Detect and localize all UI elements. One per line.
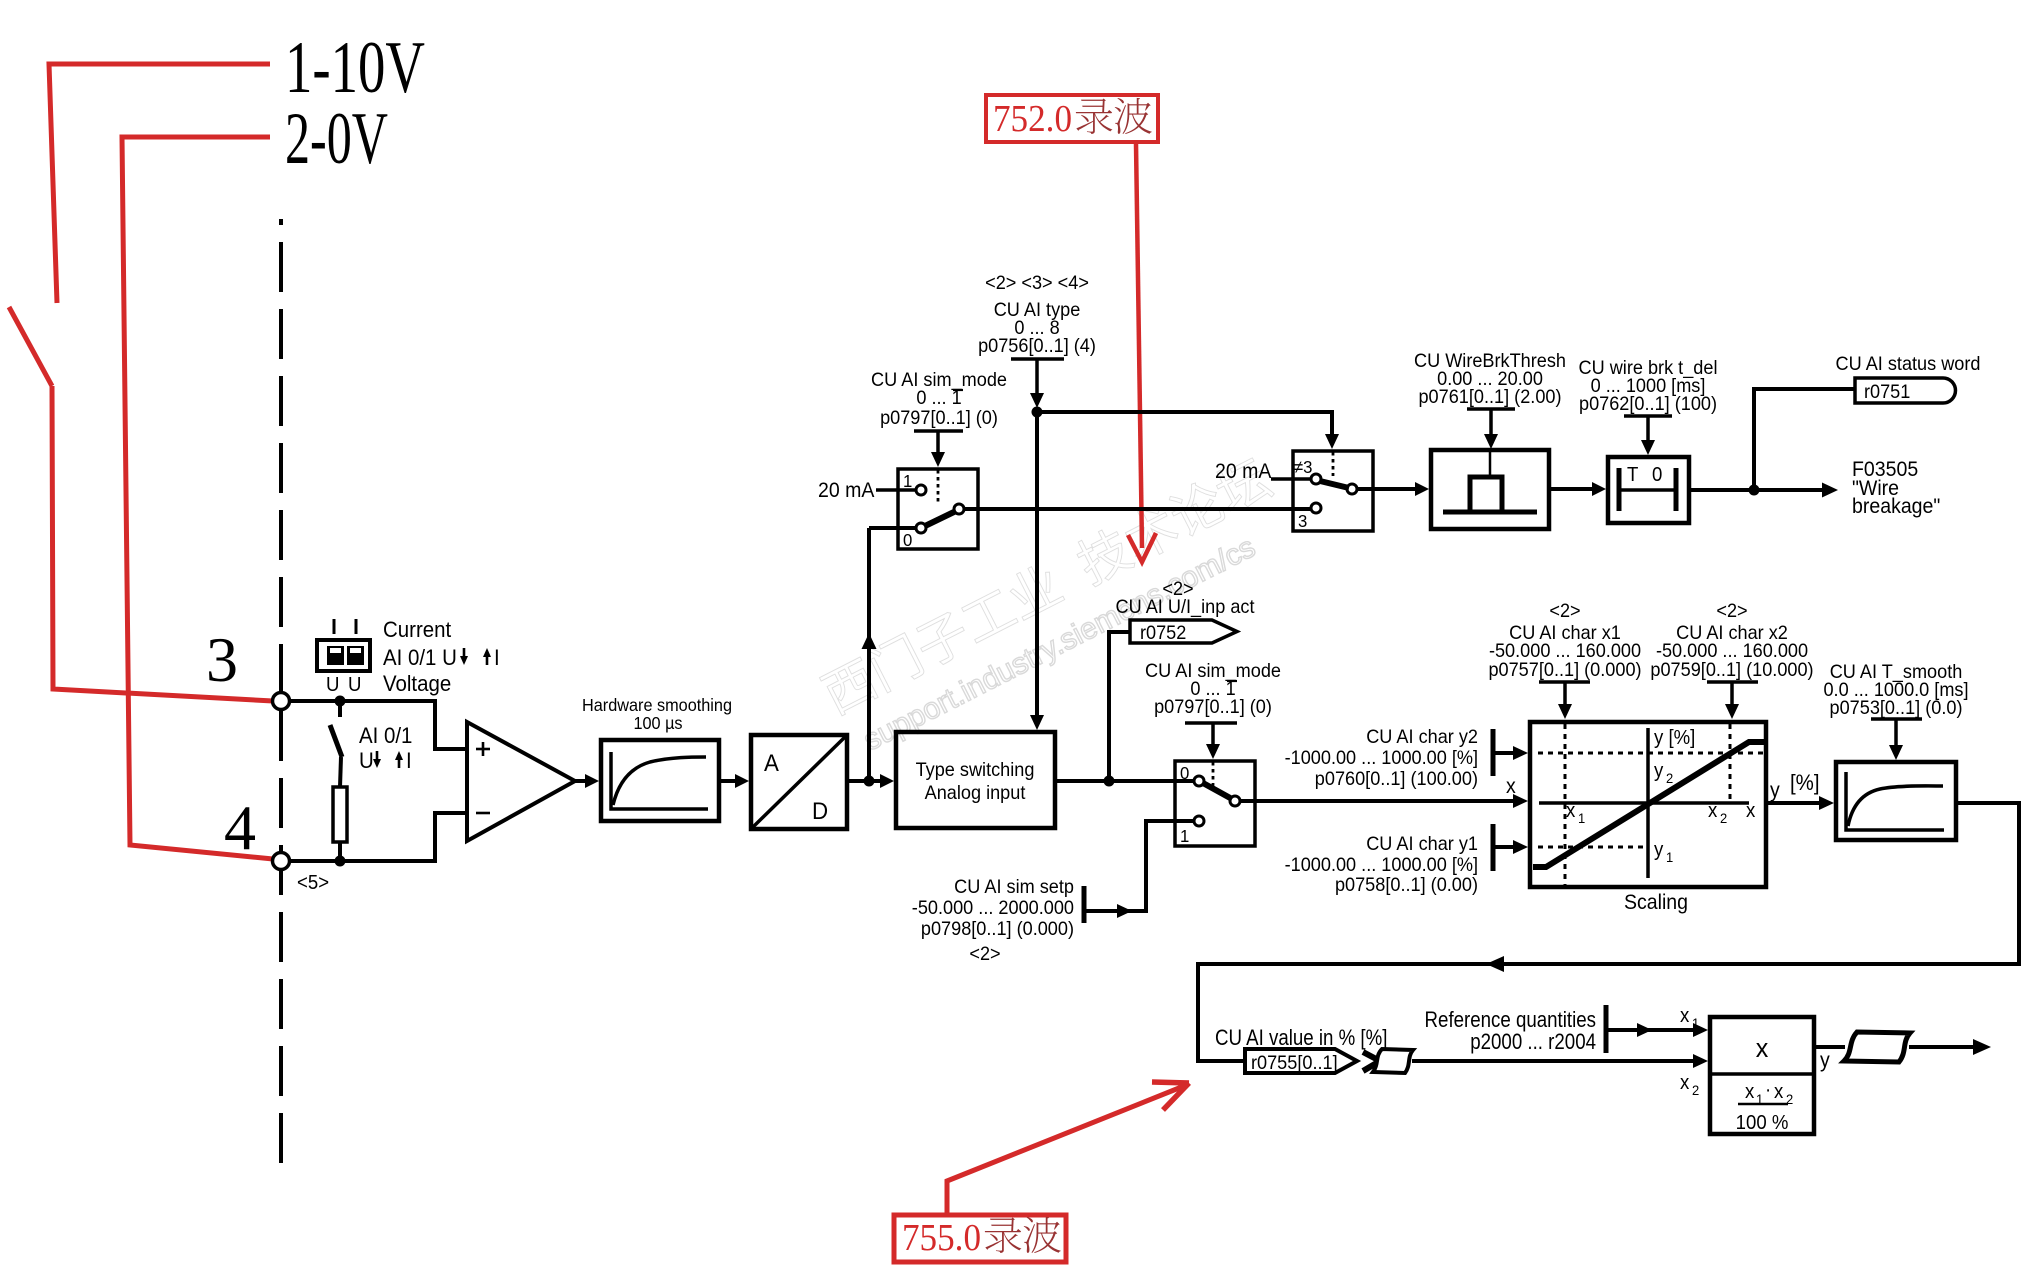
scaling dashed x1 (1564, 724, 1567, 885)
wire 1-10V to switch (49, 64, 270, 303)
label CU AI status word (1835, 352, 1980, 374)
svg-text:x: x (1708, 800, 1718, 822)
svg-text:p0756[0..1] (4): p0756[0..1] (4) (978, 334, 1096, 356)
svg-text:p0759[0..1] (10.000): p0759[0..1] (10.000) (1650, 658, 1813, 680)
svg-text:x: x (1774, 1081, 1784, 1103)
svg-text:p0760[0..1] (100.00): p0760[0..1] (100.00) (1315, 767, 1478, 789)
svg-text:1: 1 (903, 470, 912, 491)
param CU WireBrkThresh p0761 (1414, 349, 1566, 449)
time delay block (1608, 457, 1689, 523)
red callout box 752.0 (986, 95, 1158, 142)
output r0751 (1855, 378, 1955, 403)
wire switch 2 to scaling (1240, 794, 1528, 808)
svg-text:-1000.00 ... 1000.00 [%]: -1000.00 ... 1000.00 [%] (1285, 746, 1478, 768)
svg-text:752.0: 752.0 (993, 98, 1072, 140)
svg-text:T: T (1627, 464, 1639, 486)
svg-text:1: 1 (1666, 850, 1673, 866)
svg-text:D: D (812, 797, 828, 824)
param CU AI T_smooth p0753 (1823, 660, 1968, 760)
svg-text:1: 1 (1692, 1016, 1699, 1032)
svg-text:<2>: <2> (969, 942, 1000, 964)
svg-text:2: 2 (1666, 771, 1673, 787)
svg-text:0: 0 (1180, 762, 1189, 783)
junction status word (1749, 485, 1760, 496)
wire final output (1909, 1039, 1991, 1055)
svg-text:1: 1 (1578, 811, 1585, 827)
svg-text:2: 2 (1720, 811, 1727, 827)
svg-text:-1000.00 ... 1000.00 [%]: -1000.00 ... 1000.00 [%] (1285, 853, 1478, 875)
param CU AI char x1 p0757 (1488, 599, 1641, 719)
label Scaling (1624, 891, 1688, 914)
wire 2-0V to terminal 4 (122, 137, 273, 859)
wire-break switch blade (1320, 481, 1349, 488)
svg-text:Type switching: Type switching (916, 758, 1035, 780)
output r0752 (1130, 620, 1237, 643)
param CU AI char y2 p0760 (1285, 725, 1493, 789)
svg-text:Voltage: Voltage (383, 671, 451, 696)
wire-break switch pin ≠3 (1294, 456, 1321, 484)
svg-text:0: 0 (1652, 464, 1662, 486)
svg-text:p0753[0..1] (0.0): p0753[0..1] (0.0) (1830, 696, 1963, 718)
svg-text:x: x (1680, 1005, 1690, 1027)
output r0755 (1245, 1049, 1380, 1073)
junction A/D output (864, 776, 875, 787)
terminal 4 (273, 853, 290, 870)
svg-text:CU AI U/I_inp act: CU AI U/I_inp act (1116, 595, 1256, 618)
scaling x axis (1539, 801, 1749, 805)
svg-text:755.0: 755.0 (902, 1217, 981, 1259)
svg-text:I: I (494, 645, 500, 670)
ribbon (signal continues) (1373, 1049, 1413, 1073)
wire 20mA to switch 1 (876, 488, 915, 492)
svg-text:CU AI char y1: CU AI char y1 (1366, 832, 1478, 854)
hardware smoothing label (582, 695, 732, 733)
switch sim_mode 2 box (1175, 761, 1255, 846)
svg-text:3: 3 (206, 624, 238, 695)
svg-text:CU AI status word: CU AI status word (1835, 352, 1980, 374)
svg-text:20 mA: 20 mA (1215, 460, 1272, 483)
resistor (current shunt) (333, 787, 347, 861)
svg-text:U: U (359, 748, 374, 773)
svg-text:y [%]: y [%] (1654, 727, 1695, 749)
wire-break threshold block (1431, 450, 1549, 529)
switch 1 pin 1 (903, 470, 926, 495)
wire-break switch actuation (dashed) (1332, 452, 1335, 476)
wire op-amp to smoothing (575, 774, 599, 788)
svg-text:Current: Current (383, 617, 451, 642)
switch 1 pin 0 (903, 523, 926, 550)
svg-text:20 mA: 20 mA (818, 479, 875, 502)
junction terminal 4 (335, 856, 346, 867)
switch 2 common (1230, 796, 1240, 806)
op-amp input amplifier (467, 722, 575, 841)
switch sim_mode 1 box (898, 469, 978, 549)
svg-text:·: · (1765, 1079, 1771, 1101)
label y (multiplier output) (1820, 1049, 1831, 1072)
wire char y2 to scaling (1493, 746, 1528, 760)
wire scaling to T_smooth (1766, 796, 1834, 810)
switch 1 blade (925, 511, 956, 526)
svg-text:4: 4 (224, 792, 256, 863)
wire smoothing to A/D (719, 774, 749, 788)
svg-text:y: y (1820, 1049, 1831, 1072)
param CU AI sim setp p0798 (912, 875, 1084, 964)
wire r0755 to multiplier x2 (1412, 1054, 1708, 1068)
wire terminal 3 to op-amp + (290, 701, 465, 749)
svg-text:breakage": breakage" (1852, 495, 1940, 518)
svg-text:-50.000 ... 2000.000: -50.000 ... 2000.000 (912, 896, 1074, 918)
svg-text:p0797[0..1] (0): p0797[0..1] (0) (880, 406, 998, 428)
svg-text:1-10V: 1-10V (285, 27, 425, 109)
wire terminal 4 to op-amp - (290, 813, 465, 861)
wire type to wire-break switch actuation (1037, 412, 1339, 449)
svg-text:p0762[0..1] (100): p0762[0..1] (100) (1579, 392, 1717, 414)
svg-text:0: 0 (903, 529, 912, 550)
label CU AI value in % (1215, 1027, 1387, 1051)
watermark (818, 453, 1298, 763)
svg-text:y: y (1654, 760, 1664, 782)
multiplier block (1710, 1017, 1814, 1134)
svg-text:p0758[0..1] (0.00): p0758[0..1] (0.00) (1335, 873, 1478, 895)
switch 1 actuation (dashed) (937, 470, 940, 505)
param CU AI sim_mode p0797 (1) (871, 368, 1007, 467)
label x (scaling input) (1506, 775, 1516, 798)
svg-text:AI 0/1 U: AI 0/1 U (383, 645, 457, 670)
terminal 3 label (206, 624, 238, 695)
svg-text:p2000 ... r2004: p2000 ... r2004 (1470, 1031, 1596, 1055)
switch AI 0/1 (shunt) (330, 701, 342, 787)
svg-text:CU AI value in % [%]: CU AI value in % [%] (1215, 1027, 1387, 1051)
svg-text:100 %: 100 % (1736, 1112, 1789, 1134)
red arrow 752.0 to r0752 (1128, 144, 1156, 562)
svg-text:p0797[0..1] (0): p0797[0..1] (0) (1154, 695, 1272, 717)
scaling axis labels (1566, 727, 1756, 865)
svg-text:≠3: ≠3 (1294, 456, 1312, 477)
node CU AI type (1032, 407, 1043, 418)
wire-break switch box (1293, 451, 1373, 531)
label 20 mA (2) (1215, 460, 1272, 483)
svg-text:x: x (1746, 800, 1756, 822)
label 2-0V (285, 98, 388, 180)
svg-text:<2> <3> <4>: <2> <3> <4> (985, 271, 1089, 293)
wire reference to multiplier x1 (1606, 1023, 1708, 1037)
svg-text:y: y (1654, 839, 1664, 861)
junction terminal 3 (335, 696, 346, 707)
wire sim setp to switch 2 (1084, 821, 1193, 918)
wire type switching to sim switch 2 (1055, 779, 1193, 783)
wire multiplier output (1814, 1045, 1845, 1049)
svg-text:Scaling: Scaling (1624, 891, 1688, 914)
svg-text:x: x (1680, 1072, 1690, 1094)
svg-text:A: A (764, 749, 779, 776)
wire switch 3 to threshold block (1357, 482, 1429, 496)
wire junction to r0752 (1109, 632, 1130, 781)
svg-text:<2>: <2> (1549, 599, 1580, 621)
svg-text:[%]: [%] (1790, 770, 1820, 795)
ribbon (output continues) (1844, 1032, 1910, 1062)
svg-text:r0752: r0752 (1140, 621, 1186, 643)
svg-text:CU AI sim setp: CU AI sim setp (954, 875, 1074, 897)
svg-text:r0751: r0751 (1864, 380, 1910, 402)
note <5> (297, 872, 329, 894)
scaling characteristic (1533, 742, 1766, 867)
switch 1 common (954, 504, 964, 514)
type switching block (896, 732, 1055, 828)
label x2 (multiplier input) (1680, 1072, 1699, 1098)
scaling block (1530, 722, 1766, 887)
red arrow 755.0 to r0755 (947, 1082, 1189, 1215)
switch 2 blade (1203, 783, 1232, 799)
param Reference quantities p2000 (1425, 1005, 1606, 1054)
hardware smoothing block (601, 740, 719, 821)
label 1-10V (285, 27, 425, 109)
switch 2 actuation (dashed) (1212, 762, 1215, 790)
wire T_smooth feedback (1198, 803, 2019, 1061)
wire junction up to sim switch 1 (862, 528, 917, 781)
svg-text:<2>: <2> (1716, 599, 1747, 621)
note <2> (r0752) (1162, 577, 1193, 599)
terminal 4 label (224, 792, 256, 863)
switch 2 pin 0 (1180, 762, 1204, 786)
svg-text:x: x (1756, 1032, 1769, 1063)
label CU AI U/I_inp act (1116, 595, 1256, 618)
label y [%] (1770, 770, 1820, 802)
svg-text:1: 1 (1180, 825, 1189, 846)
svg-text:Hardware smoothing: Hardware smoothing (582, 695, 732, 715)
svg-text:AI 0/1: AI 0/1 (359, 723, 412, 748)
svg-text:U: U (326, 674, 339, 696)
svg-text:<5>: <5> (297, 872, 329, 894)
svg-text:p0757[0..1] (0.000): p0757[0..1] (0.000) (1488, 658, 1641, 680)
switch AI 0/1 label (359, 723, 412, 773)
wire 20mA to wire-break switch (1271, 477, 1311, 481)
wire-break switch pin 3 (1298, 503, 1321, 531)
label 20 mA (1) (818, 479, 875, 502)
DIP switch icon (317, 619, 370, 696)
svg-text:p0761[0..1] (2.00): p0761[0..1] (2.00) (1418, 385, 1561, 407)
scaling y axis (1646, 728, 1650, 878)
terminal 3 (273, 693, 290, 710)
wire switch 1 to wire-break switch (964, 507, 1311, 511)
svg-text:U: U (348, 674, 361, 696)
wire to r0751 (1754, 389, 1855, 490)
svg-text:100 µs: 100 µs (633, 713, 682, 733)
svg-text:r0755[0..1]: r0755[0..1] (1251, 1051, 1338, 1073)
param CU AI char y1 p0758 (1285, 824, 1493, 895)
param CU AI char x2 p0759 (1650, 599, 1813, 719)
wire switch to terminal 3 (52, 386, 273, 701)
svg-text:x: x (1506, 775, 1516, 798)
param CU AI sim_mode p0797 (2) (1145, 659, 1281, 759)
svg-text:3: 3 (1298, 510, 1307, 531)
drive unit boundary (dashed) (279, 219, 283, 1163)
svg-text:I: I (406, 748, 412, 773)
svg-text:2: 2 (1692, 1083, 1699, 1099)
A/D converter (751, 735, 847, 829)
junction r0752 (1104, 776, 1115, 787)
svg-text:CU AI char y2: CU AI char y2 (1366, 725, 1478, 747)
label x1 (multiplier input) (1680, 1005, 1699, 1031)
scaling dashed y2 (1538, 752, 1764, 755)
scaling dashed x2 (1729, 724, 1732, 803)
DIP labels (383, 617, 500, 696)
wire A/D to type switching (847, 774, 894, 788)
svg-text:x: x (1745, 1081, 1755, 1103)
svg-text:2-0V: 2-0V (285, 98, 388, 180)
wire type down to type-switching block (1030, 412, 1044, 730)
param CU wire brk t_del p0762 (1579, 356, 1718, 455)
param CU AI type p0756 (978, 271, 1096, 408)
label F03505 Wire breakage (1852, 458, 1940, 518)
svg-text:x: x (1566, 800, 1576, 822)
wire threshold to t_del (1549, 482, 1606, 496)
switch 2 pin 1 (1180, 816, 1204, 846)
wire-break switch common (1347, 484, 1357, 494)
T_smooth block (1836, 762, 1956, 840)
svg-text:y: y (1770, 779, 1781, 802)
svg-text:p0798[0..1] (0.000): p0798[0..1] (0.000) (921, 917, 1074, 939)
scaling dashed y1 (1538, 846, 1648, 849)
svg-text:Reference quantities: Reference quantities (1425, 1009, 1596, 1033)
svg-text:Analog input: Analog input (925, 781, 1026, 803)
red callout box 755.0 (894, 1215, 1066, 1262)
wire char y1 to scaling (1493, 840, 1528, 854)
wire t_del to F03505 (1689, 483, 1838, 498)
red switch blade (9, 307, 52, 386)
